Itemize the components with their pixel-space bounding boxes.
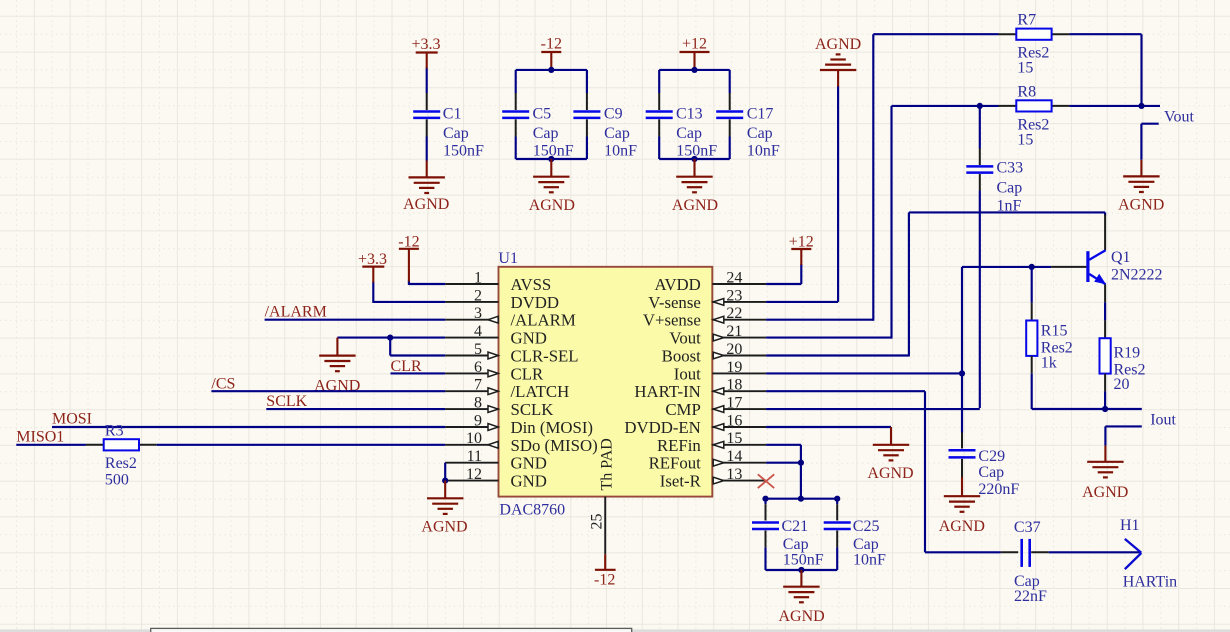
svg-text:DAC8760: DAC8760 <box>499 501 565 518</box>
svg-text:11: 11 <box>467 448 482 465</box>
svg-text:25: 25 <box>589 514 606 530</box>
svg-text:+3.3: +3.3 <box>358 251 387 268</box>
svg-text:GND: GND <box>511 472 547 491</box>
svg-text:+12: +12 <box>789 234 814 251</box>
svg-text:3: 3 <box>474 305 482 322</box>
svg-text:AGND: AGND <box>1118 196 1164 213</box>
svg-text:-12: -12 <box>398 233 419 250</box>
svg-text:4: 4 <box>474 323 482 340</box>
svg-text:5: 5 <box>474 341 482 358</box>
svg-text:9: 9 <box>474 412 482 429</box>
svg-text:HART-IN: HART-IN <box>634 382 700 401</box>
svg-text:17: 17 <box>726 395 742 412</box>
svg-text:21: 21 <box>726 323 742 340</box>
svg-text:Cap: Cap <box>978 464 1004 481</box>
svg-text:10nF: 10nF <box>604 142 637 159</box>
svg-text:AGND: AGND <box>778 608 824 625</box>
svg-text:22nF: 22nF <box>1014 588 1047 605</box>
svg-text:C37: C37 <box>1014 519 1041 536</box>
svg-text:Iout: Iout <box>1150 412 1176 429</box>
svg-text:AGND: AGND <box>939 518 985 535</box>
svg-text:AGND: AGND <box>421 519 467 536</box>
svg-text:V+sense: V+sense <box>643 311 701 330</box>
svg-text:Cap: Cap <box>676 125 702 142</box>
svg-text:6: 6 <box>474 359 482 376</box>
svg-text:150nF: 150nF <box>533 142 574 159</box>
svg-text:2N2222: 2N2222 <box>1111 266 1163 283</box>
svg-text:R3: R3 <box>105 423 124 440</box>
svg-text:C29: C29 <box>978 448 1005 465</box>
svg-text:-12: -12 <box>594 572 615 589</box>
svg-text:C9: C9 <box>604 106 623 123</box>
svg-text:Cap: Cap <box>853 536 879 553</box>
svg-text:SCLK: SCLK <box>266 393 307 410</box>
svg-text:GND: GND <box>511 329 547 348</box>
svg-text:15: 15 <box>726 430 742 447</box>
svg-text:REFin: REFin <box>657 436 701 455</box>
svg-text:R8: R8 <box>1017 84 1036 101</box>
svg-text:150nF: 150nF <box>676 142 717 159</box>
svg-text:1k: 1k <box>1041 355 1057 372</box>
svg-text:Boost: Boost <box>662 347 702 366</box>
svg-text:150nF: 150nF <box>443 142 484 159</box>
svg-text:Iset-R: Iset-R <box>660 472 702 491</box>
svg-text:AVDD: AVDD <box>654 275 700 294</box>
svg-text:/LATCH: /LATCH <box>511 382 570 401</box>
svg-text:+12: +12 <box>682 36 707 53</box>
svg-text:C1: C1 <box>443 106 462 123</box>
svg-text:SCLK: SCLK <box>511 400 554 419</box>
svg-text:Din (MOSI): Din (MOSI) <box>511 418 594 437</box>
svg-text:Cap: Cap <box>533 125 559 142</box>
svg-text:SDo (MISO): SDo (MISO) <box>511 436 598 455</box>
svg-text:10nF: 10nF <box>747 142 780 159</box>
svg-text:CMP: CMP <box>665 400 700 419</box>
svg-text:R15: R15 <box>1041 322 1068 339</box>
svg-text:15: 15 <box>1017 132 1033 149</box>
svg-text:C21: C21 <box>782 518 809 535</box>
svg-text:R7: R7 <box>1017 12 1036 29</box>
svg-text:16: 16 <box>726 412 742 429</box>
svg-text:19: 19 <box>726 359 742 376</box>
svg-text:AGND: AGND <box>529 197 575 214</box>
svg-text:Res2: Res2 <box>105 455 137 472</box>
svg-text:R19: R19 <box>1114 345 1141 362</box>
svg-text:Q1: Q1 <box>1111 249 1131 266</box>
svg-text:2: 2 <box>474 287 482 304</box>
svg-text:DVDD: DVDD <box>511 293 559 312</box>
svg-text:/ALARM: /ALARM <box>265 304 327 321</box>
svg-text:MISO1: MISO1 <box>16 429 64 446</box>
svg-text:Cap: Cap <box>783 536 809 553</box>
svg-text:AGND: AGND <box>815 36 861 53</box>
svg-text:H1: H1 <box>1120 517 1140 534</box>
svg-text:AGND: AGND <box>403 196 449 213</box>
svg-text:AGND: AGND <box>867 465 913 482</box>
svg-text:220nF: 220nF <box>978 481 1019 498</box>
svg-text:AGND: AGND <box>1082 484 1128 501</box>
svg-text:HARTin: HARTin <box>1123 574 1177 591</box>
svg-text:150nF: 150nF <box>783 552 824 569</box>
svg-text:Cap: Cap <box>747 125 773 142</box>
svg-text:20: 20 <box>726 341 742 358</box>
svg-text:CLR: CLR <box>391 358 422 375</box>
svg-text:7: 7 <box>474 377 482 394</box>
svg-text:22: 22 <box>726 305 742 322</box>
svg-text:C17: C17 <box>747 106 774 123</box>
svg-text:GND: GND <box>511 454 547 473</box>
svg-text:CLR-SEL: CLR-SEL <box>511 347 579 366</box>
svg-text:Cap: Cap <box>997 179 1023 196</box>
svg-text:/ALARM: /ALARM <box>511 311 576 330</box>
svg-text:Iout: Iout <box>674 364 701 383</box>
svg-text:+3.3: +3.3 <box>411 36 440 53</box>
svg-text:15: 15 <box>1017 60 1033 77</box>
svg-text:/CS: /CS <box>211 376 235 393</box>
svg-text:C13: C13 <box>676 106 703 123</box>
svg-text:Cap: Cap <box>604 125 630 142</box>
svg-text:REFout: REFout <box>649 454 702 473</box>
svg-text:18: 18 <box>726 377 742 394</box>
svg-text:14: 14 <box>726 448 742 465</box>
svg-text:Vout: Vout <box>669 329 701 348</box>
svg-text:AGND: AGND <box>672 197 718 214</box>
svg-text:8: 8 <box>474 395 482 412</box>
svg-text:C33: C33 <box>997 160 1024 177</box>
svg-text:24: 24 <box>726 269 742 286</box>
svg-text:20: 20 <box>1114 376 1130 393</box>
svg-text:10: 10 <box>466 430 482 447</box>
svg-text:500: 500 <box>105 472 129 489</box>
svg-text:Cap: Cap <box>443 125 469 142</box>
svg-text:MOSI: MOSI <box>52 411 92 428</box>
svg-text:Th PAD: Th PAD <box>599 438 616 490</box>
svg-text:DVDD-EN: DVDD-EN <box>624 418 700 437</box>
svg-text:AVSS: AVSS <box>511 275 552 294</box>
svg-text:12: 12 <box>466 466 482 483</box>
svg-text:V-sense: V-sense <box>648 293 701 312</box>
svg-text:13: 13 <box>726 466 742 483</box>
svg-text:Vout: Vout <box>1164 108 1194 125</box>
svg-text:10nF: 10nF <box>853 552 886 569</box>
svg-text:C25: C25 <box>853 518 880 535</box>
svg-text:-12: -12 <box>541 36 562 53</box>
svg-text:U1: U1 <box>498 250 518 267</box>
svg-text:1: 1 <box>474 269 482 286</box>
svg-text:23: 23 <box>726 287 742 304</box>
svg-text:C5: C5 <box>533 106 552 123</box>
svg-text:CLR: CLR <box>511 364 544 383</box>
